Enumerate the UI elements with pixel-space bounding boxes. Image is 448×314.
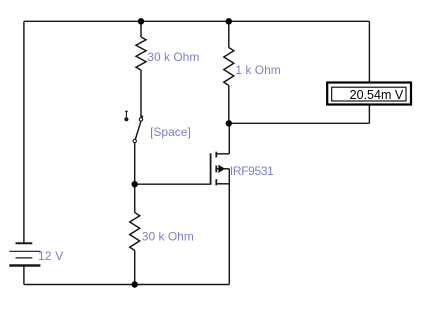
wire switch bottom to gate node	[134, 143, 136, 185]
wire gate lead from node to Q1	[135, 183, 211, 185]
V1 plate 2 long	[9, 250, 40, 252]
label switch [Space]	[150, 125, 191, 139]
svg-text:IRF9531: IRF9531	[230, 164, 274, 178]
wire meter bottom drop	[368, 105, 370, 124]
battery V1 12 V	[9, 243, 40, 265]
Q1 channel segment bottom	[215, 179, 217, 185]
wire R1 bottom to switch top	[140, 70, 142, 118]
wire top rail from R1 junction to R3 junction	[141, 20, 229, 22]
Q1 channel segment top	[215, 152, 217, 158]
switch J1 bottom contact	[133, 139, 136, 142]
label V1 12 V	[38, 249, 64, 263]
resistor R1 30 k Ohm (top)	[136, 21, 146, 70]
node junction bottom rail R2	[132, 281, 138, 287]
svg-text:20.54m V: 20.54m V	[350, 88, 404, 102]
node junction gate / R2 top	[132, 181, 138, 187]
voltmeter XMM1 body	[327, 83, 411, 105]
V1 plate 3 short	[16, 257, 33, 259]
wire top rail from battery to R1 junction	[24, 20, 141, 22]
svg-text:[Space]: [Space]	[150, 125, 191, 139]
resistor R2 30 k Ohm (bottom)	[130, 213, 140, 285]
wire R3 junction down to Q1 drain	[228, 123, 230, 154]
wire meter top drop	[368, 21, 370, 82]
Q1 bulk/source middle lead	[216, 168, 229, 170]
node junction R3 bottom / drain	[226, 120, 232, 126]
wire bottom rail from battery to R2 junction	[24, 284, 135, 286]
switch J1 blade	[135, 116, 142, 140]
transistor Q1 IRF9531 p-MOSFET	[211, 152, 217, 186]
Q1 gate bar	[210, 153, 212, 184]
label R1 30 k Ohm	[147, 50, 199, 64]
wire battery bottom to bottom rail	[23, 266, 25, 285]
Q1 source bottom lead	[216, 183, 229, 185]
switch J1 key actuator mark	[125, 111, 128, 121]
resistor R3 1 k Ohm (right)	[224, 21, 234, 123]
svg-text:1 k Ohm: 1 k Ohm	[235, 63, 280, 77]
wire Q1 source down to bottom rail	[228, 169, 230, 285]
switch J1 top contact	[139, 118, 142, 121]
Q1 channel segment middle	[215, 166, 217, 173]
wire gate node down to R2 top	[134, 184, 136, 212]
wire meter return to R3 bottom junction	[229, 122, 370, 124]
wire top rail from R3 junction to meter drop	[229, 20, 370, 22]
voltmeter XMM1 reading 20.54m V	[350, 88, 404, 102]
label R2 30 k Ohm	[142, 229, 194, 243]
svg-text:30 k Ohm: 30 k Ohm	[147, 50, 199, 64]
V1 plate 4 long	[9, 264, 40, 267]
node junction top R1	[138, 18, 144, 24]
wire bottom rail from R2 junction to Q1 source	[135, 284, 230, 286]
Q1 drain lead	[216, 153, 229, 155]
label R3 1 k Ohm	[235, 63, 280, 77]
svg-text:12 V: 12 V	[38, 249, 64, 263]
node junction top R3	[226, 18, 232, 24]
Q1 bulk arrow	[218, 165, 225, 173]
svg-text:30 k Ohm: 30 k Ohm	[142, 229, 194, 243]
wire left rail down to battery top	[23, 21, 25, 243]
label Q1 IRF9531	[230, 164, 274, 178]
V1 plate 1 short	[16, 242, 33, 244]
